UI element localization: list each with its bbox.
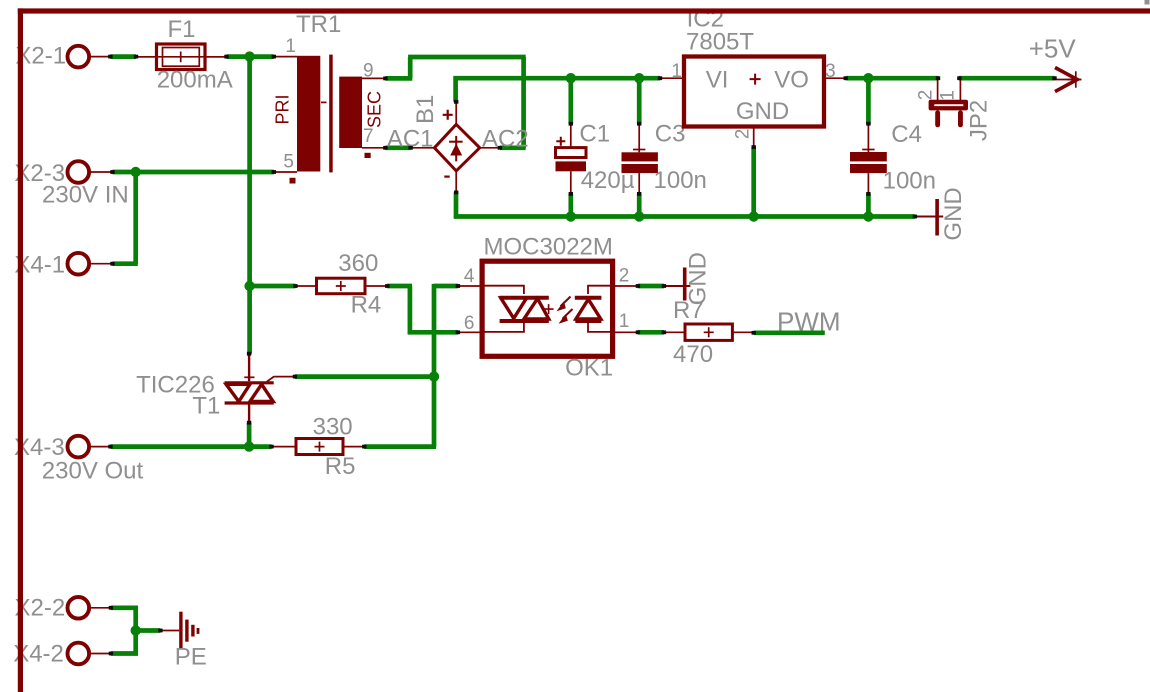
triac T1 gate lead xyxy=(267,376,275,381)
pin stub OK1 pin1 xyxy=(613,331,638,333)
ground symbol GND at OK1 pin2 xyxy=(683,268,687,301)
svg-text:1: 1 xyxy=(938,90,959,101)
pin stub JP2 pin2 xyxy=(937,79,939,100)
svg-text:1: 1 xyxy=(285,36,296,57)
transformer TR1 origin mark xyxy=(321,101,327,103)
TR1 polarity dot pin7 xyxy=(365,153,371,158)
svg-text:C4: C4 xyxy=(891,121,922,148)
resistor R5 body xyxy=(296,439,343,455)
wire C1 top lead xyxy=(568,78,573,124)
capacitor C4 plates xyxy=(850,152,887,161)
pin stub GND net at OK1 pin2 xyxy=(664,285,691,287)
wire X2-3 down to X4-1 xyxy=(133,172,138,264)
svg-text:5: 5 xyxy=(283,152,294,173)
wire +DC rail to IC2 VI xyxy=(454,76,661,81)
svg-text:360: 360 xyxy=(338,250,378,277)
fuse F1 body xyxy=(157,44,206,70)
pin stub X4-2 xyxy=(88,653,111,655)
pin stub B1 AC1 xyxy=(411,147,436,149)
wire C3 top lead xyxy=(637,78,642,124)
pin stub C3 bottom xyxy=(638,173,640,194)
jumper JP2 body xyxy=(929,100,968,111)
wire F1 to TR1 pin1 with junction xyxy=(227,54,274,59)
wire X2-1 to F1 xyxy=(110,54,136,59)
transformer TR1 core line xyxy=(329,55,333,173)
svg-text:470: 470 xyxy=(673,341,713,368)
pin stub R5 left xyxy=(272,446,297,448)
svg-text:3: 3 xyxy=(825,61,836,82)
pin stub T1 bottom xyxy=(248,405,250,423)
wire R5 right to branch xyxy=(364,444,436,449)
junction X2-3 net xyxy=(131,167,141,177)
wire C4 top lead xyxy=(866,78,871,124)
wire X2-2 to PE xyxy=(111,605,138,610)
pin stub R4 right xyxy=(365,285,387,287)
wire C3 bottom lead xyxy=(637,194,642,217)
svg-text:9: 9 xyxy=(363,61,374,82)
pin stub T1 top xyxy=(248,354,250,382)
svg-text:7: 7 xyxy=(363,126,374,147)
TR1 polarity dot pin5 xyxy=(290,178,296,184)
wire T1 bottom lead xyxy=(247,423,252,447)
svg-text:2: 2 xyxy=(916,90,937,101)
svg-text:MOC3022M: MOC3022M xyxy=(484,234,613,261)
wire OK1 pin4 horizontal xyxy=(434,284,458,289)
junction C4 top xyxy=(863,73,873,83)
voltage regulator IC2 box xyxy=(684,57,824,127)
wire JP2 pin1 to +5V arrow xyxy=(959,76,1055,81)
pin stub R7 right xyxy=(732,331,753,333)
svg-text:200mA: 200mA xyxy=(157,67,233,94)
wire IC2 pin2 down xyxy=(751,147,756,216)
pin stub TR1 pin1 xyxy=(274,56,297,58)
svg-text:R7: R7 xyxy=(673,297,704,324)
pin stub IC2 pin2 xyxy=(753,127,755,148)
bridge B1 minus mark xyxy=(444,176,449,178)
pin stub TR1 pin5 xyxy=(274,171,297,173)
capacitor C3 plates xyxy=(622,152,658,161)
svg-text:T1: T1 xyxy=(192,393,220,420)
svg-text:SEC: SEC xyxy=(364,91,384,128)
wire end tips xyxy=(108,55,112,59)
wire live drop vertical to R4/T1 xyxy=(247,57,252,354)
capacitor C4 origin mark xyxy=(862,149,874,151)
pin stub JP2 pin1 xyxy=(959,79,961,100)
svg-text:VO: VO xyxy=(774,67,809,94)
wire TR1 pin7 to AC1 xyxy=(385,145,410,150)
pin stub X4-1 xyxy=(88,263,113,265)
capacitor C3 origin mark xyxy=(633,149,645,151)
wire AC top route xyxy=(408,57,413,78)
svg-text:B1: B1 xyxy=(412,95,439,124)
wire OK1 pin4 branch vertical xyxy=(432,284,437,447)
OK1 inner output triac xyxy=(482,286,524,294)
connector X2-3 xyxy=(68,161,90,183)
pin stub R4 left xyxy=(295,285,316,287)
pin stub B1 plus xyxy=(455,102,457,126)
resistor R7 body xyxy=(685,324,732,340)
pin stub C1 top xyxy=(570,124,572,148)
pin stub C4 top xyxy=(867,124,869,152)
svg-text:F1: F1 xyxy=(167,16,195,43)
triac T1 symbol xyxy=(225,381,274,384)
connector X4-1 xyxy=(68,253,90,275)
pin stub X4-3 xyxy=(88,446,111,448)
svg-text:+5V: +5V xyxy=(1029,34,1077,64)
svg-text:R4: R4 xyxy=(351,292,382,319)
pin stub T1 gate xyxy=(274,376,295,378)
pin stub R7 left xyxy=(664,331,685,333)
pin stub X2-2 xyxy=(88,607,111,609)
wire C1 bottom lead xyxy=(568,194,573,217)
pin stub GND net right xyxy=(915,216,943,218)
frame top border xyxy=(18,8,1150,13)
junction T1 gate node xyxy=(429,371,439,381)
bridge B1 plus mark xyxy=(443,110,453,120)
svg-text:VI: VI xyxy=(706,67,729,94)
pin stub OK1 pin2 xyxy=(613,285,638,287)
svg-text:AC2: AC2 xyxy=(482,126,529,153)
frame left border xyxy=(18,8,23,692)
junction X4-3 net at T1 xyxy=(244,441,254,451)
svg-text:OK1: OK1 xyxy=(565,355,613,382)
svg-text:230V Out: 230V Out xyxy=(42,458,144,485)
capacitor C1 bottom plate xyxy=(556,161,587,171)
junction C3 bottom xyxy=(634,211,644,221)
capacitor C1 top plate xyxy=(556,148,587,158)
wire X4-3 to R5 xyxy=(111,444,272,449)
pin stub R5 right xyxy=(343,446,364,448)
bridge rectifier B1 diamond xyxy=(434,124,479,170)
svg-text:C3: C3 xyxy=(655,121,686,148)
wire PE node to earth symbol xyxy=(136,628,161,633)
svg-text:4: 4 xyxy=(464,266,475,287)
junction IC2 GND pin on rail xyxy=(749,211,759,221)
pin stub X2-3 xyxy=(88,171,113,173)
pin stub C3 top xyxy=(638,124,640,153)
svg-text:2: 2 xyxy=(619,266,630,287)
junction C1 top xyxy=(566,73,576,83)
wire OK1 pin2 to GND xyxy=(638,284,664,289)
svg-text:6: 6 xyxy=(464,313,475,334)
junction PE node xyxy=(131,625,141,635)
pin stub B1 AC2 xyxy=(479,147,500,149)
connector X2-1 xyxy=(68,46,90,68)
pin stub X2-1 xyxy=(88,56,110,58)
junction C3 top xyxy=(634,73,644,83)
svg-text:GND: GND xyxy=(940,187,967,240)
svg-text:1: 1 xyxy=(619,311,630,332)
pin stub TR1 pin7 xyxy=(362,147,385,149)
OK1 origin cross xyxy=(544,304,554,314)
pin stubs F1 and through line xyxy=(136,56,227,58)
wire R4 left from live node xyxy=(250,284,296,289)
svg-text:R5: R5 xyxy=(325,453,356,480)
wire ground rail xyxy=(454,214,915,219)
svg-text:100n: 100n xyxy=(654,167,707,194)
wire B1 minus down to ground rail xyxy=(454,192,459,218)
wire R7 to PWM label xyxy=(754,330,825,335)
pin stub OK1 pin6 xyxy=(458,331,482,333)
pin stub B1 minus xyxy=(455,170,457,193)
pin stub IC2 pin1 xyxy=(660,77,684,79)
wire X2-3 to TR1 pin5 xyxy=(113,170,274,175)
pin stub TR1 pin9 xyxy=(362,77,385,79)
svg-text:JP2: JP2 xyxy=(966,100,993,141)
IC2 origin cross xyxy=(750,74,761,85)
wire IC2 VO to JP2 pin2 xyxy=(846,76,939,81)
wire T1 gate to branch xyxy=(295,374,434,379)
cropped frame text top-right corner xyxy=(1145,0,1150,5)
svg-text:GND: GND xyxy=(736,98,789,125)
+5V output arrow xyxy=(1053,79,1081,81)
wire OK1 pin1 to R7 xyxy=(638,330,664,335)
svg-text:230V IN: 230V IN xyxy=(42,181,129,208)
pin stub C4 bottom xyxy=(867,173,869,194)
connector X2-2 xyxy=(68,597,90,619)
wire R4 right jog down to OK1 pin6 xyxy=(387,284,412,289)
junction R4 node xyxy=(244,281,254,291)
junction at F1/TR1/live-drop node xyxy=(244,51,254,61)
triac T1 origin mark xyxy=(244,376,254,378)
pin stub IC2 pin3 xyxy=(824,77,846,79)
svg-text:7805T: 7805T xyxy=(686,29,754,56)
svg-text:PE: PE xyxy=(175,644,207,671)
junction C4 bottom xyxy=(863,211,873,221)
wire B1 plus up to +DC rail xyxy=(453,76,458,102)
pin stub PE xyxy=(160,630,179,632)
resistor R7 origin cross xyxy=(704,327,714,337)
svg-text:X2-1: X2-1 xyxy=(15,43,66,70)
svg-text:100n: 100n xyxy=(883,168,936,195)
resistor R4 body xyxy=(317,278,366,294)
wire TR1 pin9 to AC loop xyxy=(385,76,412,81)
svg-text:PRI: PRI xyxy=(273,94,293,124)
transformer TR1 secondary winding xyxy=(339,77,362,148)
pin stub OK1 pin4 xyxy=(458,285,482,287)
jumper JP2 leg pin2 xyxy=(935,110,940,127)
pin stub C1 bottom xyxy=(570,171,572,194)
jumper JP2 leg pin1 xyxy=(958,110,963,127)
svg-text:C1: C1 xyxy=(579,121,610,148)
transformer TR1 primary winding xyxy=(297,56,320,172)
capacitor C1 plus mark xyxy=(556,137,565,146)
earth symbol PE xyxy=(179,612,182,650)
connector X4-2 xyxy=(68,643,90,665)
OK1 inner photo detector xyxy=(588,286,613,294)
svg-text:2: 2 xyxy=(733,129,754,140)
bridge B1 inner diode xyxy=(455,136,457,161)
svg-text:TR1: TR1 xyxy=(296,11,341,38)
ground symbol GND right xyxy=(935,199,939,236)
OK1 LED arrows xyxy=(561,297,571,307)
svg-text:330: 330 xyxy=(313,414,353,441)
svg-text:PWM: PWM xyxy=(777,307,841,337)
resistor R5 origin cross xyxy=(315,442,325,452)
connector X4-3 xyxy=(68,436,90,458)
optocoupler OK1 box xyxy=(482,261,612,356)
svg-text:1: 1 xyxy=(671,61,682,82)
wire C4 bottom lead xyxy=(866,194,871,217)
junction C1 bottom xyxy=(566,211,576,221)
resistor R4 origin cross xyxy=(336,281,346,291)
